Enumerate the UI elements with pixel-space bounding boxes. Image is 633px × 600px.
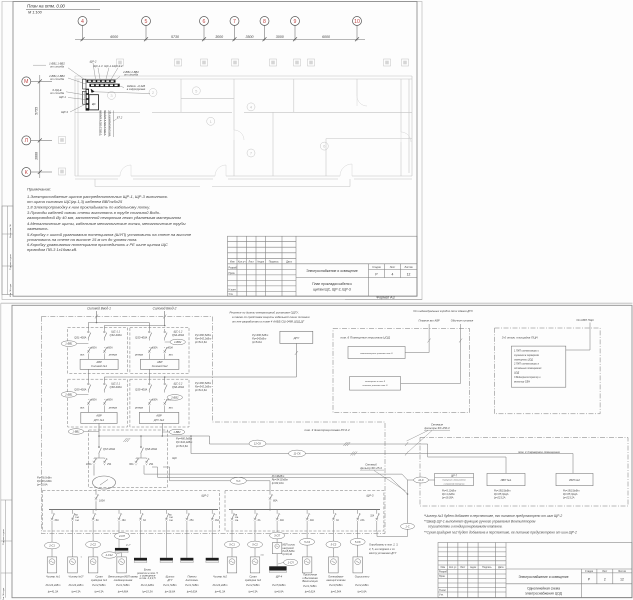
load circuit at x186.9 — [186, 531, 188, 558]
svg-text:щитам ЩС, ЩР-2, ЩР-3: щитам ЩС, ЩР-2, ЩР-3 — [313, 288, 351, 292]
svg-text:Листов: Листов — [404, 266, 413, 269]
svg-text:Iр=0,62А: Iр=0,62А — [304, 589, 315, 593]
cable tag 1-VV2 output — [169, 429, 184, 435]
svg-text:ЦОД: ЦОД — [514, 372, 520, 375]
sheet1 left stamp strip — [2, 206, 13, 295]
switch QS tier1 — [149, 329, 152, 341]
svg-text:QS4-400А: QS4-400А — [172, 333, 184, 337]
svg-text:фильтры ФС-250-3: фильтры ФС-250-3 — [425, 426, 450, 430]
dimension line top — [75, 38, 365, 40]
svg-text:Рр=342,2кВт: Рр=342,2кВт — [195, 385, 212, 389]
branch breaker 20А at x307.1 — [306, 510, 308, 513]
breaker 160A ShchR2 feed — [95, 494, 99, 500]
svg-text:Ру=480,5кВт: Ру=480,5кВт — [195, 381, 212, 385]
svg-text:вкл.: вкл. — [80, 407, 85, 410]
svg-text:Сетевой: Сетевой — [365, 463, 377, 467]
svg-text:План на отм. 0.00: План на отм. 0.00 — [27, 4, 65, 9]
svg-text:Рр=342кВт: Рр=342кВт — [252, 337, 267, 341]
svg-text:Изм: Изм — [441, 566, 446, 569]
svg-text:ф-1*: ф-1* — [126, 543, 131, 546]
svg-text:5-С6: 5-С6 — [355, 540, 361, 544]
svg-text:**Шкаф ЩУ-1 выполняет функцию: **Шкаф ЩУ-1 выполняет функцию ручного уп… — [424, 519, 536, 523]
svg-text:7: 7 — [233, 19, 236, 25]
svg-text:Разраб: Разраб — [229, 266, 238, 269]
wire drop to IBP1 — [505, 457, 507, 473]
cable tag 2-VV2 — [167, 395, 182, 401]
svg-text:ДГУ: ДГУ — [167, 578, 173, 582]
svg-text:Iр=6,8А: Iр=6,8А — [274, 589, 284, 593]
svg-text:Взам. инв. №: Взам. инв. № — [9, 224, 12, 238]
svg-text:Стадия: Стадия — [372, 266, 381, 269]
svg-text:Ру=480,5кВт: Ру=480,5кВт — [176, 437, 193, 441]
svg-text:Чиллер №1: Чиллер №1 — [46, 575, 61, 579]
svg-text:Лист: Лист — [390, 266, 396, 269]
main bus wire — [98, 423, 100, 436]
svg-text:Сетевые: Сетевые — [431, 423, 444, 427]
svg-text:Рн=2,5кВт: Рн=2,5кВт — [246, 583, 260, 587]
wire to ShchR3 feed — [269, 481, 271, 494]
svg-text:QS6-400А: QS6-400А — [110, 385, 122, 389]
cable tag 1-VV1 — [61, 341, 76, 347]
wire gen to ShchR2 — [95, 489, 97, 494]
svg-text:12: 12 — [407, 273, 411, 277]
svg-text:Пров.: Пров. — [439, 575, 446, 578]
svg-text:Утв.: Утв. — [439, 594, 444, 597]
svg-text:QS6-400А: QS6-400А — [172, 385, 184, 389]
panel ShchR-7 box — [435, 473, 474, 485]
svg-text:Однолинейная схема: Однолинейная схема — [527, 586, 560, 590]
panel ShchS box — [89, 430, 168, 488]
svg-text:1-ВВ1,1-ВВ2 в штробе: 1-ВВ1,1-ВВ2 в штробе — [101, 109, 103, 135]
cable tag 12-SK — [249, 440, 266, 447]
wire to lighting box — [460, 324, 462, 383]
switch QS tier2 — [164, 381, 167, 393]
branch breaker 16А at x119 — [118, 510, 120, 513]
svg-text:2: 2 — [604, 578, 606, 582]
svg-text:резерв: резерв — [134, 407, 144, 410]
svg-text:Опробованы в пом. 2, 3,: Опробованы в пом. 2, 3, — [369, 543, 399, 547]
breaker tier2 — [103, 399, 107, 405]
switch QS tier2 — [104, 381, 107, 393]
svg-text:Разраб: Разраб — [439, 571, 448, 574]
grid axis 7 — [230, 17, 239, 41]
svg-text:Аастоянн.: Аастоянн. — [185, 578, 199, 582]
svg-text:Ру=56,5кВт: Ру=56,5кВт — [37, 476, 53, 480]
svg-text:Iр=16,4А: Iр=16,4А — [282, 553, 292, 556]
wire DGU to AVR tier2 — [295, 343, 297, 377]
svg-text:ЩС-1.2: ЩС-1.2 — [113, 64, 123, 68]
svg-text:от столба: от столба — [50, 64, 64, 68]
load circuit at x140.5 — [140, 531, 142, 558]
load circuit at x119 — [118, 531, 120, 533]
switch QS tier1 — [88, 329, 91, 341]
load circuit at x255 — [254, 531, 256, 541]
switch QS7 — [98, 436, 100, 444]
svg-text:Освещение и блок розеток: Освещение и блок розеток — [442, 480, 465, 482]
svg-text:QS3-400А: QS3-400А — [135, 336, 147, 340]
svg-text:Подпись: Подпись — [482, 566, 492, 569]
cable tag 1-VV1 output — [68, 429, 83, 435]
svg-text:Iр=6,63А: Iр=6,63А — [186, 589, 197, 593]
svg-text:400А: 400А — [107, 398, 113, 401]
svg-text:К: К — [25, 170, 28, 176]
svg-text:пом. 3 Электрощитовая РУ-0.4: пом. 3 Электрощитовая РУ-0.4 — [304, 428, 349, 432]
svg-text:Осушители: Осушители — [355, 575, 370, 579]
svg-text:градирня №1: градирня №1 — [91, 578, 108, 582]
svg-text:Рн=0,5кВт: Рн=0,5кВт — [329, 583, 343, 587]
svg-text:План прокладки кабеля к: План прокладки кабеля к — [312, 282, 352, 286]
svg-text:Рн=1,5кВт: Рн=1,5кВт — [163, 583, 177, 587]
wire L4 drop to 1-S — [407, 480, 409, 523]
svg-text:От ИБП ПЦН: От ИБП ПЦН — [576, 318, 593, 322]
panel AVR DGU N2 box — [130, 379, 189, 427]
branch breaker 6,3А at x232 — [231, 510, 233, 513]
svg-text:Подпись: Подпись — [269, 260, 280, 263]
svg-text:Стадия: Стадия — [585, 570, 594, 573]
svg-text:5730: 5730 — [171, 35, 179, 39]
svg-text:10: 10 — [354, 19, 360, 25]
svg-text:ЩР-2: ЩР-2 — [90, 59, 97, 63]
branch breaker 3А at x333.4 — [332, 510, 334, 513]
svg-text:QS1-400А: QS1-400А — [74, 336, 86, 340]
AVR Silovoy N2 unit — [140, 359, 179, 369]
svg-text:6А: 6А — [143, 519, 146, 522]
svg-text:1-ВВ1: 1-ВВ1 — [72, 430, 80, 434]
svg-text:5-С2: 5-С2 — [252, 543, 258, 547]
svg-text:Обычное питание: Обычное питание — [451, 319, 474, 323]
branch breaker 16А at x212.2 — [211, 510, 213, 513]
svg-text:5-С4: 5-С4 — [304, 540, 310, 544]
svg-text:1-ВВ2: 1-ВВ2 — [173, 430, 181, 434]
wire to computer sockets — [428, 324, 430, 353]
svg-text:ИБП №2: ИБП №2 — [569, 478, 580, 482]
svg-text:резерв: резерв — [108, 354, 118, 357]
svg-text:1.ПКП сигнализации и: 1.ПКП сигнализации и — [514, 350, 540, 353]
svg-text:Iр=4,3А: Iр=4,3А — [248, 589, 258, 593]
bus ShchR-3 — [229, 509, 380, 511]
svg-text:силовые розетки пом. 6: силовые розетки пом. 6 — [363, 385, 389, 387]
svg-text:ЩР-7: ЩР-7 — [451, 475, 458, 478]
svg-text:Формат А3: Формат А3 — [376, 295, 394, 299]
svg-text:Рн=2,2кВт: Рн=2,2кВт — [355, 583, 369, 587]
svg-text:Iр=512,6А: Iр=512,6А — [195, 388, 207, 392]
svg-text:3000: 3000 — [276, 35, 284, 39]
AVR DGU N2 unit — [139, 412, 179, 423]
svg-text:Iр=223,2А: Iр=223,2А — [494, 497, 506, 500]
svg-text:М: М — [24, 79, 28, 85]
svg-text:400А: 400А — [107, 346, 113, 349]
wire IBP PCN — [589, 323, 591, 351]
room pom6 boundary — [333, 329, 470, 413]
svg-text:2-С1: 2-С1 — [48, 544, 55, 548]
svg-text:помещении ЦОД: помещении ЦОД — [514, 358, 533, 361]
svg-text:Рн=1,5кВт: Рн=1,5кВт — [303, 584, 317, 588]
breaker tier1 — [148, 347, 152, 353]
svg-text:от нее разработано в томе 4 АА: от нее разработано в томе 4 ААББ.СШ-0488… — [232, 320, 305, 324]
svg-text:QS5-400А: QS5-400А — [135, 388, 147, 392]
svg-text:12: 12 — [620, 578, 624, 582]
svg-text:2-С2: 2-С2 — [89, 543, 96, 547]
breaker tier2 — [163, 399, 167, 405]
svg-text:10А: 10А — [169, 516, 173, 519]
svg-text:а также по средствам защиты ка: а также по средствам защиты кабельной ли… — [232, 315, 310, 319]
svg-text:освещение в пом. 6: освещение в пом. 6 — [365, 381, 386, 383]
branch breaker 6А at x93.1 — [92, 510, 94, 513]
svg-text:Рр=34,02кВт: Рр=34,02кВт — [272, 478, 289, 482]
svg-text:1-С: 1-С — [405, 524, 409, 528]
svg-text:ЩР-4: ЩР-4 — [276, 575, 283, 579]
svg-text:Силовой №2: Силовой №2 — [152, 364, 168, 368]
svg-text:Рн=5,6кВт: Рн=5,6кВт — [272, 583, 286, 587]
svg-text:QS7-400А: QS7-400А — [103, 447, 115, 451]
svg-text:QS5-400А: QS5-400А — [74, 388, 86, 392]
AVR DGU N1 unit — [81, 412, 117, 423]
svg-text:400А: 400А — [152, 398, 158, 401]
svg-text:Изм: Изм — [230, 260, 235, 263]
svg-text:Iр=223,2А: Iр=223,2А — [563, 497, 575, 500]
svg-text:2-ВВ1: 2-ВВ1 — [64, 392, 73, 396]
svg-text:тушения в серверном: тушения в серверном — [514, 354, 539, 357]
svg-text:ЩР-1: ЩР-1 — [59, 95, 66, 99]
svg-text:*Чиллер №3 будет добавлен в пе: *Чиллер №3 будет добавлен в перспективе,… — [424, 514, 562, 518]
svg-text:12-С: 12-С — [418, 478, 424, 482]
load circuit at x166.4 — [165, 531, 167, 558]
svg-text:Н.конт: Н.конт — [439, 589, 447, 592]
riser to 12-SK wire — [209, 436, 211, 444]
load circuit at x212.2 — [211, 531, 213, 558]
room number circles — [108, 91, 116, 99]
grid axis 8 — [260, 17, 269, 41]
svg-text:ИБП №1: ИБП №1 — [501, 478, 512, 482]
svg-text:2-ВВ1,2-ВВ2 в штробе: 2-ВВ1,2-ВВ2 в штробе — [105, 109, 107, 136]
svg-text:ЩС-1.1: ЩС-1.1 — [111, 329, 120, 333]
branch breaker 6А at x140.5 — [140, 510, 142, 513]
svg-text:Электроснабжение и освещение: Электроснабжение и освещение — [306, 269, 358, 273]
svg-text:6А: 6А — [258, 519, 261, 522]
panel AVR Silovoy N2 box — [130, 327, 189, 373]
svg-text:Силовой №1: Силовой №1 — [91, 364, 107, 368]
cable tag 1-VV2 — [170, 339, 185, 345]
wire vvod2 header — [104, 325, 164, 327]
floor plan doors — [120, 96, 411, 176]
svg-text:**Сухая градирня №2 будет доба: **Сухая градирня №2 будет добавлена в пе… — [424, 530, 577, 534]
UPS IBP N2 box — [556, 473, 593, 485]
sheet2 paper edge — [1, 302, 633, 304]
load circuit at x72.5 — [72, 531, 74, 557]
svg-text:ЩР-2: ЩР-2 — [202, 494, 209, 498]
box computer sockets pom6 — [348, 347, 405, 359]
panel ShchR-3 box — [225, 491, 384, 532]
svg-text:электроснабжения ЦОД: электроснабжения ЦОД — [525, 591, 562, 595]
svg-text:5-С1: 5-С1 — [229, 543, 235, 547]
wire ShchS out L3 — [143, 465, 145, 474]
branch breaker 32A — [376, 510, 378, 513]
wire 12-SK — [210, 443, 428, 445]
svg-text:АВР: АВР — [95, 414, 102, 418]
switch QS tier1 — [104, 329, 107, 341]
svg-text:Рн=24,2кВт: Рн=24,2кВт — [213, 583, 229, 587]
floor plan interior walls — [75, 79, 412, 187]
grid axis 5 — [142, 17, 151, 41]
svg-text:1-СЛ: 1-СЛ — [288, 560, 294, 564]
bus ShchR-2 — [49, 509, 218, 511]
grid axis М — [22, 77, 52, 86]
svg-text:25А: 25А — [148, 463, 154, 466]
svg-text:Iр=19,05А: Iр=19,05А — [442, 497, 454, 500]
svg-text:3000: 3000 — [215, 35, 223, 39]
svg-text:ЩС-1.2: ЩС-1.2 — [174, 329, 183, 333]
UPS IBP N1 box — [487, 473, 525, 485]
PCN equipment box — [511, 346, 565, 387]
svg-text:Лист: Лист — [460, 566, 466, 569]
wire 11-SK — [191, 453, 573, 455]
svg-text:3500: 3500 — [246, 35, 254, 39]
svg-text:Листов: Листов — [618, 570, 626, 573]
svg-text:Силовой Ввод-1: Силовой Ввод-1 — [87, 307, 111, 311]
svg-text:QS8-400А: QS8-400А — [145, 447, 157, 451]
panel ShchR-2 box — [43, 491, 220, 532]
load circuit at x232 — [231, 531, 233, 541]
panel AVR DGU N1 box — [68, 379, 128, 427]
svg-text:Плавное вкл АВР: Плавное вкл АВР — [419, 319, 440, 323]
branch breaker 6А,10А,10А at x166.4 — [165, 510, 167, 513]
svg-text:5-С3: 5-С3 — [331, 543, 337, 547]
branch breaker 20А at x277.1 — [276, 510, 278, 513]
svg-text:10А: 10А — [75, 516, 79, 519]
svg-text:ДГУ: ДГУ — [293, 336, 301, 340]
svg-text:от столба: от столба — [124, 73, 138, 77]
svg-text:160А: 160А — [99, 500, 105, 503]
svg-text:Рр=38,2кВт: Рр=38,2кВт — [37, 479, 53, 483]
sheet2 title block — [438, 543, 632, 598]
svg-text:Рр=342,2кВт: Рр=342,2кВт — [176, 440, 193, 444]
svg-text:20А: 20А — [279, 519, 285, 522]
load circuit at x93.1 — [92, 531, 94, 541]
wire AVR2 to tier2 — [148, 369, 150, 381]
svg-text:АВР: АВР — [156, 360, 163, 364]
svg-text:от щита силового ЩС(гр.1,3) к: от щита силового ЩС(гр.1,3) кабелем ВВГн… — [27, 199, 123, 204]
svg-text:в пом. 2,3,4,5: в пом. 2,3,4,5 — [139, 576, 156, 580]
wire ShchS out L4 — [157, 467, 159, 477]
svg-text:Ру=46кВт: Ру=46кВт — [272, 474, 285, 478]
svg-text:Лист: Лист — [602, 570, 608, 573]
svg-text:10А: 10А — [235, 516, 239, 519]
breakers under QS8 — [140, 456, 142, 459]
svg-text:Решение по дизель-генераторной: Решение по дизель-генераторной установке… — [230, 311, 300, 315]
svg-text:Iр=512А: Iр=512А — [252, 340, 262, 344]
svg-text:ЩС: ЩС — [92, 103, 96, 106]
svg-text:установить на стене на высоте: установить на стене на высоте 15 м от до… — [26, 237, 137, 242]
branch breaker 25А at x186.9 — [186, 510, 188, 513]
svg-text:ЩС-2.1: ЩС-2.1 — [111, 381, 120, 385]
svg-text:4, 5, на террасе и по: 4, 5, на террасе и по — [369, 547, 395, 551]
svg-text:16А: 16А — [215, 519, 220, 522]
svg-text:2-СП: 2-СП — [118, 534, 125, 538]
cable tag 1-S — [401, 523, 415, 529]
svg-text:№док: №док — [470, 566, 477, 569]
room PCN boundary — [495, 328, 601, 414]
svg-text:4.Металлические щиты, кабельны: 4.Металлические щиты, кабельные металлич… — [27, 221, 186, 226]
sheet2 frame — [12, 305, 632, 597]
svg-text:Рн=1,5кВт: Рн=1,5кВт — [185, 583, 199, 587]
sheet1 paper edge — [2, 2, 422, 300]
svg-text:Iр=0,34А: Iр=0,34А — [330, 589, 341, 593]
svg-text:5755: 5755 — [35, 107, 39, 115]
svg-text:1.8 Электропроводку к ним про: 1.8 Электропроводку к ним прокладывать п… — [27, 205, 150, 210]
generator DGU box — [280, 331, 313, 343]
svg-text:ЩР-3: ЩР-3 — [367, 494, 374, 498]
svg-text:фильтр ФС-25-3: фильтр ФС-25-3 — [360, 466, 382, 470]
svg-text:газопроводной Øу 40 мм, запол: газопроводной Øу 40 мм, заполненной него… — [27, 215, 181, 220]
svg-text:Кол.уч: Кол.уч — [238, 260, 246, 263]
svg-text:400А: 400А — [91, 398, 97, 401]
svg-text:Рн=24,2кВт: Рн=24,2кВт — [46, 583, 62, 587]
svg-text:Чиллер №3*: Чиллер №3* — [69, 575, 85, 579]
cable tray horizontal run — [87, 80, 116, 83]
cable tag 2-VV1 — [61, 392, 76, 398]
svg-text:20А: 20А — [309, 519, 315, 522]
svg-text:3000: 3000 — [35, 152, 39, 160]
svg-text:Ру=480,5кВт: Ру=480,5кВт — [252, 333, 269, 337]
svg-text:Дата: Дата — [286, 260, 292, 263]
cable tray vertical run — [86, 89, 89, 111]
svg-text:Инв. № подл.: Инв. № подл. — [2, 587, 5, 600]
svg-text:8: 8 — [263, 19, 266, 25]
wire vvod1 header — [88, 322, 149, 324]
svg-text:3-й этаж, площадка ПЦН: 3-й этаж, площадка ПЦН — [502, 335, 539, 339]
svg-text:Силовой Ввод-2: Силовой Ввод-2 — [153, 307, 177, 311]
svg-text:Н.конт: Н.конт — [229, 288, 237, 291]
svg-text:АВР: АВР — [155, 414, 162, 418]
svg-text:Iр=4,3А: Iр=4,3А — [71, 589, 81, 593]
branch breaker 16А at x357.7 — [357, 510, 359, 513]
svg-text:25А: 25А — [106, 463, 112, 466]
svg-text:в серверном помещении: в серверном помещении — [444, 483, 465, 485]
generator connection oval — [93, 476, 116, 489]
wire AVR1 to tier2 — [87, 369, 89, 381]
svg-text:80А: 80А — [273, 500, 278, 503]
load circuit at x307.1 — [306, 531, 308, 539]
grid axis 9 — [291, 17, 300, 41]
svg-text:6А: 6А — [96, 519, 99, 522]
svg-text:3.Видеорегистратор и: 3.Видеорегистратор и — [514, 376, 541, 379]
svg-text:Iр=512,6А: Iр=512,6А — [195, 340, 207, 344]
svg-text:Ру=480,5кВт: Ру=480,5кВт — [195, 333, 212, 337]
svg-text:Л: Л — [25, 138, 28, 144]
svg-text:10А: 10А — [75, 519, 79, 522]
grid axis Л — [22, 136, 52, 145]
breaker tier2 — [87, 399, 91, 405]
branch breaker 6,3А at x72.5 — [72, 510, 74, 513]
load circuit at x277.1 — [276, 531, 278, 532]
svg-text:6000: 6000 — [322, 35, 330, 39]
riser to 11-SK wire — [190, 436, 192, 454]
svg-text:Iр=512,6А: Iр=512,6А — [176, 444, 188, 448]
svg-text:месту установки ДГУ: месту установки ДГУ — [369, 551, 397, 555]
grid axis 6 — [200, 17, 209, 41]
svg-text:9: 9 — [294, 19, 297, 25]
svg-text:пом. 6 Помещение персонала ЦОД: пом. 6 Помещение персонала ЦОД — [341, 335, 391, 339]
breaker 80A ShchR3 feed — [269, 494, 273, 500]
grid axis К — [22, 168, 52, 177]
svg-text:в гофрорукаве: в гофрорукаве — [127, 87, 146, 91]
svg-text:ЩС-1.3: ЩС-1.3 — [93, 64, 103, 68]
svg-text:3.Проходы кабелей сквозь стены: 3.Проходы кабелей сквозь стены выполнять… — [27, 210, 161, 215]
room pom1 server boundary — [420, 438, 628, 507]
room pom3 boundary — [41, 317, 385, 534]
grid axis 4 — [78, 17, 87, 41]
load circuit at x357.7 — [357, 531, 359, 539]
